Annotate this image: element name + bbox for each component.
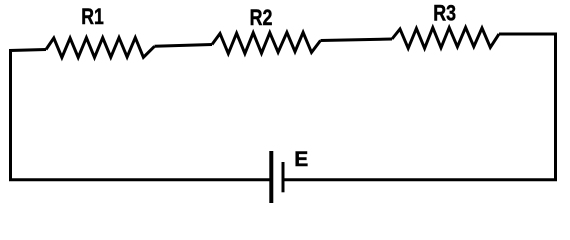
wire R2 to R3 [321, 39, 393, 41]
wire left side (top-left corner) [11, 50, 47, 180]
svg-text:R2: R2 [250, 5, 273, 30]
resistor R1 [46, 38, 155, 58]
svg-text:E: E [294, 148, 308, 171]
resistor R3 [392, 27, 499, 48]
battery E negative plate [282, 162, 285, 192]
battery E positive plate [269, 151, 273, 203]
wire bottom right [283, 178, 557, 181]
wire right side (top-right corner) [499, 34, 556, 180]
svg-text:R3: R3 [433, 0, 456, 25]
svg-text:R1: R1 [81, 4, 104, 29]
resistor R2 [212, 32, 321, 53]
wire R1 to R2 [155, 45, 213, 47]
wire bottom left [9, 178, 271, 181]
